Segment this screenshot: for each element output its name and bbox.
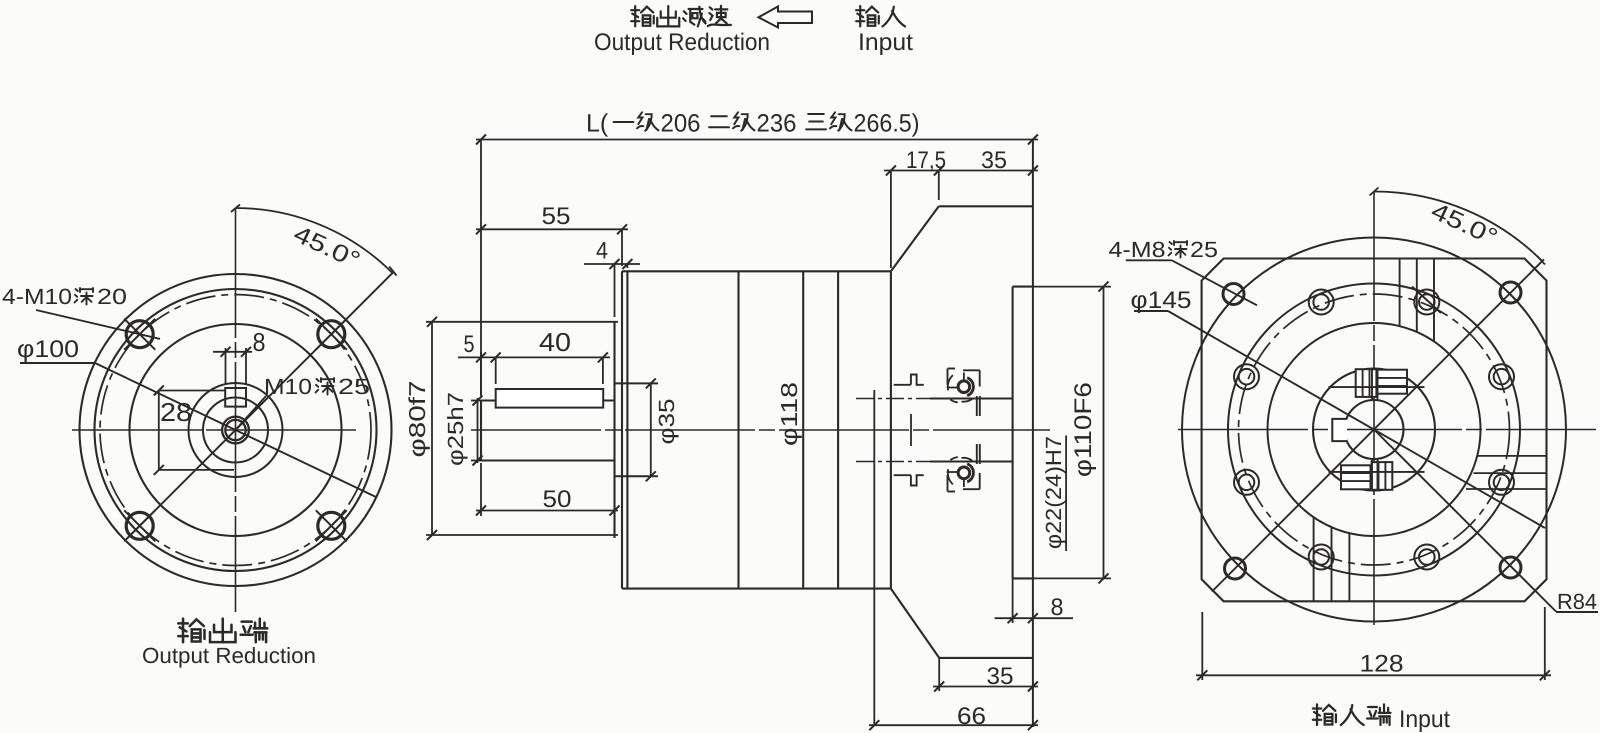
svg-text:45.0°: 45.0°	[1427, 197, 1502, 251]
svg-text:8: 8	[1051, 594, 1064, 621]
svg-text:236: 236	[757, 110, 797, 138]
svg-text:φ118: φ118	[776, 382, 802, 446]
svg-text:128: 128	[1360, 651, 1404, 678]
svg-text:20: 20	[97, 284, 127, 309]
svg-text:50: 50	[543, 486, 572, 513]
svg-text:φ80f7: φ80f7	[404, 381, 430, 458]
svg-text:R84: R84	[1557, 589, 1597, 614]
svg-text:Output Reduction: Output Reduction	[142, 643, 316, 668]
svg-text:Input: Input	[858, 29, 913, 56]
svg-text:φ25h7: φ25h7	[443, 392, 468, 466]
svg-text:35: 35	[987, 663, 1014, 690]
svg-text:L(: L(	[586, 110, 609, 138]
svg-text:φ100: φ100	[17, 336, 79, 363]
svg-text:4-M10: 4-M10	[2, 284, 72, 309]
svg-text:4-M8: 4-M8	[1109, 237, 1166, 262]
svg-text:φ110F6: φ110F6	[1070, 382, 1097, 477]
svg-text:4: 4	[596, 238, 608, 265]
svg-text:40: 40	[539, 327, 571, 357]
svg-text:35: 35	[981, 147, 1007, 174]
svg-text:φ145: φ145	[1131, 287, 1192, 314]
svg-text:55: 55	[542, 203, 571, 230]
svg-text:66: 66	[957, 703, 986, 730]
svg-text:17,5: 17,5	[906, 147, 946, 174]
svg-text:Output Reduction: Output Reduction	[594, 29, 770, 56]
svg-text:25: 25	[338, 374, 370, 399]
svg-text:φ35: φ35	[654, 399, 679, 445]
svg-text:266.5): 266.5)	[854, 110, 920, 138]
svg-text:8: 8	[253, 327, 266, 357]
svg-text:206: 206	[661, 110, 701, 138]
svg-text:Input: Input	[1399, 706, 1450, 733]
svg-text:M10: M10	[264, 374, 312, 399]
svg-text:25: 25	[1190, 237, 1218, 262]
svg-text:5: 5	[464, 331, 475, 358]
svg-text:φ22(24)H7: φ22(24)H7	[1041, 436, 1066, 549]
